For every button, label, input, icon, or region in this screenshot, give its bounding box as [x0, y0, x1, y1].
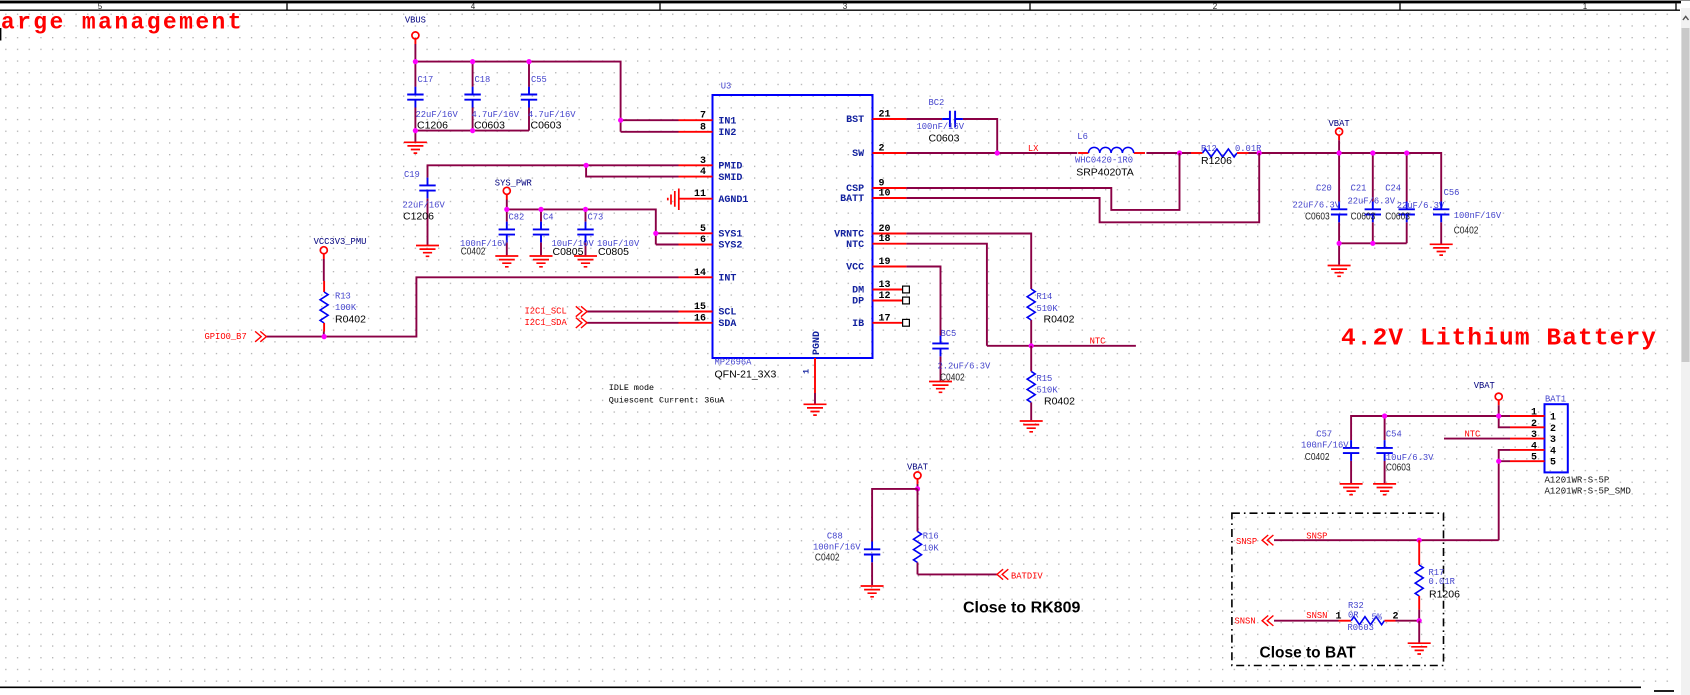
svg-text:C4: C4 [543, 213, 554, 223]
svg-text:C0603: C0603 [1305, 212, 1330, 223]
svg-text:7: 7 [700, 111, 706, 122]
svg-text:SDA: SDA [718, 319, 736, 330]
svg-text:U3: U3 [721, 82, 732, 92]
svg-text:QFN-21_3X3: QFN-21_3X3 [715, 369, 777, 381]
op-amp U3 MP2696A [679, 82, 907, 404]
junction VBAT/R16 [915, 486, 920, 491]
svg-text:C0603: C0603 [1351, 212, 1376, 223]
wire SCL [587, 311, 678, 313]
svg-text:510K: 510K [1037, 386, 1059, 396]
junction C17 bottom [413, 128, 418, 133]
svg-text:1: 1 [1336, 611, 1342, 622]
svg-text:17: 17 [879, 313, 891, 324]
svg-text:C88: C88 [827, 532, 843, 542]
no-connect DM [903, 286, 910, 293]
svg-text:100nF/16V: 100nF/16V [1301, 440, 1349, 450]
inductor L6 [1075, 132, 1145, 178]
svg-text:SNSN: SNSN [1235, 617, 1256, 627]
ground C20 [1328, 266, 1351, 277]
svg-text:C21: C21 [1351, 184, 1367, 194]
svg-text:VBAT: VBAT [907, 463, 928, 473]
svg-text:PMID: PMID [718, 162, 742, 173]
svg-text:SNSP: SNSP [1236, 537, 1257, 547]
port SNSP [1236, 535, 1273, 547]
svg-text:A1201WR-S-5P_SMD: A1201WR-S-5P_SMD [1545, 487, 1631, 497]
capacitor C21 [1348, 184, 1396, 223]
junction IN1 branch [618, 118, 623, 123]
capacitor C20 [1293, 184, 1348, 223]
svg-text:IB: IB [852, 319, 864, 330]
svg-text:BAT1: BAT1 [1545, 395, 1566, 405]
svg-text:8: 8 [700, 122, 706, 133]
svg-text:R1206: R1206 [1429, 589, 1460, 601]
svg-text:4: 4 [471, 2, 476, 11]
junction SYS1 [653, 231, 658, 236]
capacitor C17 [407, 75, 458, 131]
svg-text:100nF/16V: 100nF/16V [917, 122, 965, 132]
svg-text:SW: SW [852, 149, 864, 160]
svg-text:Quiescent Current: 36uA: Quiescent Current: 36uA [609, 395, 726, 405]
resistor R12 [1191, 144, 1262, 167]
svg-text:2: 2 [1531, 419, 1537, 430]
svg-text:INT: INT [718, 274, 736, 285]
svg-text:WHC0420-1R0: WHC0420-1R0 [1075, 155, 1133, 165]
svg-text:C20: C20 [1316, 184, 1332, 194]
ground C19 [416, 246, 439, 257]
svg-text:5: 5 [1531, 453, 1537, 464]
svg-text:VCC: VCC [846, 263, 864, 274]
net label SNSN [1306, 611, 1327, 621]
junction C18 top [470, 59, 475, 64]
wire BST [906, 119, 997, 153]
svg-text:SCL: SCL [718, 308, 736, 319]
svg-text:BATT: BATT [840, 194, 864, 205]
svg-text:R1206: R1206 [1201, 155, 1232, 167]
capacitor C4 [533, 213, 595, 259]
svg-text:14: 14 [694, 268, 706, 279]
svg-text:IN2: IN2 [718, 128, 736, 139]
junction C4 [538, 207, 543, 212]
svg-text:NTC: NTC [846, 240, 864, 251]
wire SNSP [1274, 539, 1499, 541]
port GPIO0_B7 [205, 331, 267, 342]
junction C55 top [526, 59, 531, 64]
svg-text:C0603: C0603 [474, 119, 505, 131]
svg-text:5: 5 [1550, 458, 1556, 469]
svg-text:C55: C55 [531, 75, 547, 85]
svg-text:19: 19 [879, 257, 891, 268]
junction R12/BATT [1257, 150, 1262, 155]
capacitor BC5 [932, 329, 991, 384]
junction R13 bottom [322, 334, 327, 339]
svg-text:R0402: R0402 [1044, 314, 1075, 326]
svg-text:C73: C73 [588, 213, 604, 223]
svg-text:100nF/16V: 100nF/16V [1454, 211, 1502, 221]
wire VBUS rail [415, 44, 678, 142]
svg-text:C18: C18 [475, 75, 491, 85]
svg-text:1: 1 [1550, 413, 1556, 424]
svg-text:13: 13 [879, 280, 891, 291]
svg-text:2.2uF/6.3V: 2.2uF/6.3V [938, 362, 992, 372]
svg-text:0.01R: 0.01R [1429, 577, 1456, 587]
svg-text:4.2V Lithium Battery: 4.2V Lithium Battery [1341, 326, 1657, 353]
ground C57 [1340, 484, 1363, 495]
junction C21 top [1370, 150, 1375, 155]
svg-text:SYS2: SYS2 [718, 241, 742, 252]
capacitor C56 [1433, 188, 1502, 237]
port SNSN [1235, 616, 1274, 627]
svg-text:R13: R13 [335, 292, 351, 302]
junction pin5 [1496, 459, 1501, 464]
ground C56 [1430, 244, 1453, 255]
junction SNSP/R17 [1417, 538, 1422, 543]
svg-text:100K: 100K [335, 303, 357, 313]
svg-text:22uF/6.3V: 22uF/6.3V [1348, 197, 1396, 207]
wire VRNTC [906, 234, 1031, 346]
power VBUS [405, 16, 426, 45]
capacitor BC2 [917, 98, 965, 144]
svg-text:R0603: R0603 [1348, 623, 1374, 633]
svg-text:R0402: R0402 [1044, 396, 1075, 408]
svg-text:4: 4 [1531, 441, 1537, 452]
wire CSP sense [906, 153, 1179, 210]
wire C88 branch [872, 489, 917, 585]
net label NTC [1090, 337, 1106, 347]
junction VBUS/C17 [413, 59, 418, 64]
junction C54 top [1382, 413, 1387, 418]
wire BATT sense [906, 153, 1259, 222]
ground C4 [530, 256, 553, 267]
wire NTC net [906, 244, 1136, 346]
svg-text:DM: DM [852, 286, 864, 297]
svg-text:BATDIV: BATDIV [1011, 572, 1043, 582]
ground C73 [574, 256, 597, 267]
svg-text:R14: R14 [1037, 292, 1053, 302]
wire pin4/pin5 to SNSP [1499, 450, 1510, 540]
connector BAT1 [1510, 395, 1631, 497]
no-connect IB [903, 319, 910, 326]
svg-text:10: 10 [879, 189, 891, 200]
ground PGND [804, 404, 827, 415]
svg-text:C24: C24 [1385, 184, 1401, 194]
wire SDA [587, 322, 678, 324]
svg-text:1: 1 [1531, 408, 1537, 419]
wire NTC to pin3 [1444, 438, 1510, 440]
svg-text:C0603: C0603 [1386, 462, 1411, 473]
wire R16/BATDIV [918, 489, 999, 575]
ground C88 [861, 586, 884, 597]
port I2C1_SCL [525, 306, 588, 316]
svg-text:C0603: C0603 [929, 132, 960, 144]
junction C20 bottom [1337, 241, 1342, 246]
junction C24 top [1404, 150, 1409, 155]
svg-text:R0402: R0402 [335, 313, 366, 325]
svg-text:10K: 10K [923, 544, 940, 554]
capacitor C82 [460, 213, 524, 258]
capacitor C88 [813, 532, 880, 564]
resistor R13 [320, 281, 366, 332]
svg-text:10uF/6.3V: 10uF/6.3V [1386, 453, 1434, 463]
svg-text:2: 2 [1393, 611, 1399, 622]
wire R17 to ground [1418, 621, 1420, 643]
ground R15 [1020, 421, 1043, 432]
resistor R32 [1336, 601, 1420, 633]
junction L6/CSP [1177, 150, 1182, 155]
power SYS_PWR [495, 179, 533, 200]
box Close to BAT [1232, 513, 1444, 665]
svg-text:C1206: C1206 [403, 211, 434, 223]
svg-text:C56: C56 [1444, 188, 1460, 198]
svg-text:C82: C82 [509, 213, 525, 223]
svg-text:1: 1 [1583, 2, 1588, 11]
wire VCC [906, 267, 940, 382]
net label NTC battery [1465, 429, 1481, 439]
junction NTC/R15 [1029, 343, 1034, 348]
junction C82 [504, 207, 509, 212]
svg-text:C0603: C0603 [1385, 212, 1410, 223]
svg-text:VBUS: VBUS [405, 16, 426, 26]
svg-text:SRP4020TA: SRP4020TA [1076, 166, 1134, 178]
svg-text:VCC3V3_PMU: VCC3V3_PMU [314, 237, 367, 247]
svg-text:R12: R12 [1201, 144, 1217, 154]
net label SNSP [1306, 531, 1327, 541]
svg-text:100nF/16V: 100nF/16V [813, 543, 861, 553]
capacitor C73 [577, 213, 640, 259]
junction VBAT/pin1 [1496, 413, 1501, 418]
svg-text:4: 4 [1550, 446, 1556, 457]
port BATDIV [997, 569, 1043, 581]
junction C21 bottom [1370, 241, 1375, 246]
svg-text:C17: C17 [418, 75, 434, 85]
capacitor C55 [521, 75, 576, 131]
power VBAT battery [1474, 381, 1503, 416]
svg-text:C57: C57 [1316, 430, 1332, 440]
svg-text:4: 4 [700, 167, 706, 178]
port I2C1_SDA [525, 318, 588, 328]
wire SYS rail [507, 200, 679, 256]
resistor R14 [1027, 289, 1074, 326]
svg-text:GPIO0_B7: GPIO0_B7 [205, 332, 247, 342]
svg-text:3: 3 [843, 2, 848, 11]
svg-text:5%: 5% [1372, 613, 1383, 623]
svg-text:C19: C19 [404, 170, 420, 180]
capacitor C54 [1376, 430, 1434, 474]
ground C82 [495, 256, 518, 267]
svg-text:L6: L6 [1077, 132, 1088, 142]
svg-text:6: 6 [700, 235, 706, 246]
capacitor C18 [464, 75, 519, 131]
junction R32/R17 [1417, 618, 1422, 623]
svg-text:21: 21 [879, 110, 891, 121]
ground AGND1 [668, 189, 679, 211]
svg-text:SYS1: SYS1 [718, 230, 742, 241]
svg-text:0R: 0R [1348, 611, 1359, 621]
svg-text:C1206: C1206 [417, 119, 448, 131]
svg-text:AGND1: AGND1 [718, 195, 748, 206]
svg-text:R16: R16 [923, 532, 939, 542]
svg-text:C0402: C0402 [1454, 226, 1479, 237]
wire SW/LX [906, 153, 1441, 265]
svg-text:BC5: BC5 [941, 329, 957, 339]
svg-text:C54: C54 [1386, 430, 1402, 440]
note IDLE mode [609, 383, 726, 405]
svg-text:3: 3 [1550, 435, 1556, 446]
svg-text:18: 18 [879, 234, 891, 245]
capacitor C19 [403, 170, 446, 223]
no-connect DP [903, 297, 910, 304]
svg-text:LX: LX [1028, 144, 1039, 154]
svg-text:11: 11 [694, 189, 706, 200]
svg-text:2: 2 [1550, 424, 1556, 435]
svg-text:DP: DP [852, 297, 864, 308]
power VBAT mid [907, 463, 928, 489]
svg-text:1: 1 [802, 369, 812, 374]
svg-text:2: 2 [879, 144, 885, 155]
svg-text:I2C1_SCL: I2C1_SCL [525, 307, 567, 317]
wire PMID/SMID [428, 165, 679, 245]
svg-text:3: 3 [1531, 430, 1537, 441]
svg-text:C0402: C0402 [1305, 452, 1330, 463]
wire battery plus rail [1351, 416, 1510, 483]
svg-text:3: 3 [700, 156, 706, 167]
svg-text:BST: BST [846, 115, 864, 126]
svg-text:5: 5 [700, 224, 706, 235]
svg-text:16: 16 [694, 313, 706, 324]
svg-text:22uF/16V: 22uF/16V [403, 201, 446, 211]
resistor R16 [914, 520, 940, 574]
svg-text:NTC: NTC [1465, 429, 1481, 439]
svg-text:I2C1_SDA: I2C1_SDA [525, 318, 568, 328]
svg-text:SYS_PWR: SYS_PWR [495, 179, 533, 189]
resistor R17 [1415, 540, 1460, 621]
junction SW/BST [995, 150, 1000, 155]
svg-text:C0402: C0402 [815, 553, 840, 564]
svg-text:Charge management: Charge management [0, 10, 244, 36]
net label LX [1028, 144, 1039, 154]
ground C54 [1373, 484, 1396, 495]
svg-text:PGND: PGND [812, 331, 823, 355]
svg-text:MP2696A: MP2696A [715, 358, 753, 368]
ground R17 [1408, 643, 1431, 654]
svg-text:SNSP: SNSP [1306, 531, 1327, 541]
svg-text:NTC: NTC [1090, 337, 1106, 347]
svg-text:BC2: BC2 [929, 98, 945, 108]
svg-text:510K: 510K [1037, 304, 1059, 314]
svg-text:SMID: SMID [718, 173, 742, 184]
svg-text:15: 15 [694, 302, 706, 313]
power VBAT [1329, 119, 1350, 153]
capacitor C57 [1301, 430, 1359, 464]
svg-text:IDLE mode: IDLE mode [609, 383, 654, 393]
resistor R15 [1027, 346, 1075, 420]
svg-text:Close to BAT: Close to BAT [1260, 645, 1357, 662]
wire INT net [267, 259, 679, 337]
svg-text:R15: R15 [1037, 374, 1053, 384]
svg-text:22uF/6.3V: 22uF/6.3V [1293, 201, 1341, 211]
svg-text:12: 12 [879, 291, 891, 302]
junction VBAT/C20 [1337, 150, 1342, 155]
svg-text:IN1: IN1 [718, 116, 736, 127]
ground BC5 [929, 382, 952, 393]
junction C18 bottom [470, 128, 475, 133]
capacitor C24 [1385, 184, 1445, 223]
ground C17 [404, 142, 427, 153]
svg-text:C0402: C0402 [461, 247, 486, 258]
svg-text:VBAT: VBAT [1474, 381, 1495, 391]
svg-text:SNSN: SNSN [1306, 611, 1327, 621]
svg-text:C0805: C0805 [598, 246, 629, 258]
junction PMID/SMID [584, 163, 589, 168]
power VCC3V3_PMU [314, 237, 367, 259]
junction C73 [583, 207, 588, 212]
svg-text:Close to RK809: Close to RK809 [963, 600, 1080, 617]
svg-text:R32: R32 [1348, 601, 1364, 611]
svg-text:A1201WR-S-5P: A1201WR-S-5P [1545, 476, 1610, 486]
svg-text:C0603: C0603 [531, 119, 562, 131]
svg-text:2: 2 [1213, 2, 1218, 11]
wire SNSN [1274, 620, 1339, 622]
